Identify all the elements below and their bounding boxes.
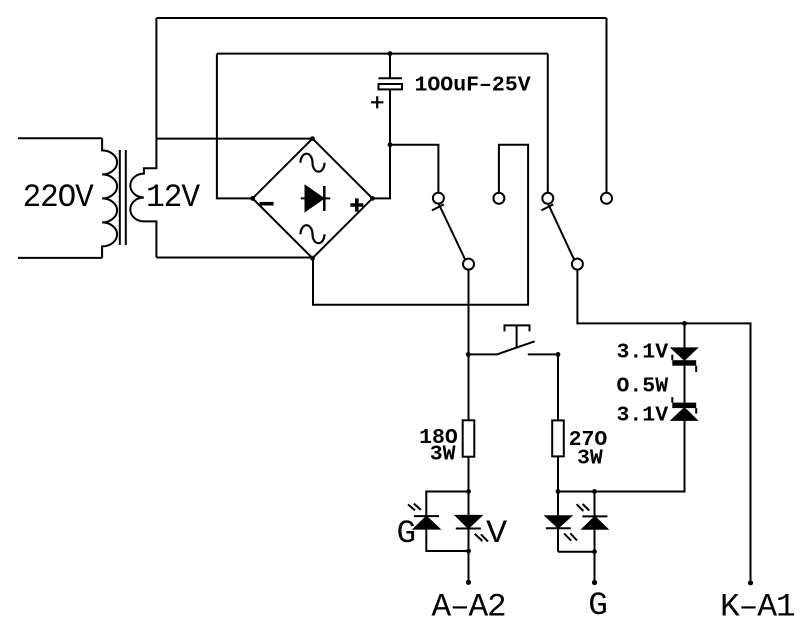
node left LED rail junction bbox=[466, 489, 471, 494]
svg-text:A–A2: A–A2 bbox=[432, 589, 506, 626]
node right LED rail right junction bbox=[592, 489, 597, 494]
resistor R2 box bbox=[552, 420, 564, 456]
LED D2 V cathode bar bbox=[456, 528, 481, 530]
wire between zeners bbox=[684, 366, 686, 403]
wire R1 bottom to LED rail bbox=[468, 457, 470, 492]
wire right LED right column bbox=[594, 492, 596, 552]
capacitor C1 plus sign bbox=[371, 96, 383, 108]
zener diode Z2 bar end ticks bbox=[672, 397, 696, 414]
node left LED bottom junction bbox=[466, 549, 471, 554]
wire right LED left column bbox=[557, 492, 559, 552]
switch S2 pole circle bbox=[542, 193, 553, 204]
wire junction to switch S1 pole bbox=[390, 145, 438, 193]
zener diode Z1 triangle bbox=[672, 348, 696, 359]
switch S2 common circle bbox=[572, 259, 583, 270]
wire primary top lead bbox=[18, 137, 102, 139]
transformer T1 core bbox=[120, 150, 126, 245]
wire button right node down to resistor R2 bbox=[557, 354, 559, 420]
wire zener column bottom to right LED rail bbox=[558, 420, 685, 492]
LED D4 cathode bar bbox=[582, 515, 607, 517]
wire S1 common down to push button node bbox=[468, 270, 470, 355]
wire outer rail to S2 right throw bbox=[606, 18, 608, 193]
wire S2 common to K-A1 column bbox=[577, 270, 750, 581]
LED D4 rays bbox=[577, 504, 590, 511]
zener diode Z1 bar end ticks bbox=[672, 355, 696, 372]
push button S3 actuator bbox=[505, 325, 530, 347]
bridge rectifier B1 diamond bbox=[253, 139, 373, 259]
resistor R1 box bbox=[463, 420, 475, 456]
node capacitor top junction bbox=[388, 51, 393, 56]
svg-text:3.1V: 3.1V bbox=[617, 404, 669, 428]
wire right LED bottom rail bbox=[558, 551, 595, 553]
wire left LED main column bbox=[468, 492, 470, 583]
node terminal K-A1 bbox=[748, 580, 753, 585]
node right LED bottom junction bbox=[592, 549, 597, 554]
svg-text:3W: 3W bbox=[430, 442, 456, 466]
LED D3 triangle bbox=[546, 516, 571, 527]
switch S1 lever tick bbox=[432, 204, 444, 210]
switch S1 pole circle bbox=[433, 193, 444, 204]
svg-text:O.5W: O.5W bbox=[617, 375, 669, 399]
node terminal G bbox=[592, 580, 597, 585]
wire zener column top bbox=[684, 323, 686, 348]
bridge B1 minus sign bbox=[260, 202, 274, 206]
switch S1 right throw circle bbox=[493, 193, 504, 204]
wire button node down to resistor R1 bbox=[468, 354, 470, 420]
bridge B1 AC squiggle bottom bbox=[301, 225, 325, 243]
bridge B1 AC squiggle top bbox=[301, 154, 325, 172]
node right LED rail left junction bbox=[556, 489, 561, 494]
node push button right bbox=[556, 352, 561, 357]
node push button left bbox=[466, 352, 471, 357]
svg-text:G: G bbox=[397, 515, 416, 552]
switch S1 common circle bbox=[463, 259, 474, 270]
wire inner top rail bbox=[217, 53, 548, 55]
transformer T1 secondary coil bbox=[130, 18, 156, 258]
wire left LED branch loop bbox=[426, 492, 468, 552]
capacitor C1 bottom plate box bbox=[379, 84, 403, 89]
svg-text:22OV: 22OV bbox=[23, 179, 95, 216]
node bridge right corner bbox=[370, 196, 375, 201]
wire bridge plus to capacitor column bbox=[372, 54, 390, 199]
LED D1 G triangle bbox=[414, 517, 439, 529]
node zener top junction bbox=[682, 321, 687, 326]
bridge B1 diode symbol bbox=[301, 197, 331, 199]
wire secondary bottom to bridge AC bottom bbox=[156, 257, 312, 259]
bridge B1 plus sign bbox=[350, 198, 363, 211]
wire inner rail left drop to bridge left corner bbox=[217, 54, 253, 199]
transformer T1 primary coil bbox=[102, 138, 117, 258]
node bridge bottom corner bbox=[310, 256, 315, 261]
switch S2 right throw circle bbox=[601, 193, 612, 204]
zener diode Z2 triangle bbox=[672, 408, 696, 420]
push button S3 lever bbox=[497, 341, 535, 354]
switch S1 lever bbox=[439, 204, 465, 260]
wire push button left contact bbox=[468, 353, 497, 355]
push button S3 right contact wire bbox=[528, 353, 558, 355]
LED D2 V rays bbox=[475, 534, 488, 542]
switch S2 lever bbox=[548, 204, 574, 260]
wire secondary top to bridge AC top bbox=[156, 138, 312, 140]
svg-text:3W: 3W bbox=[577, 446, 603, 470]
svg-text:1OOuF–25V: 1OOuF–25V bbox=[415, 74, 531, 98]
wire outer top rail bbox=[156, 17, 606, 19]
LED D3 cathode bar bbox=[546, 527, 571, 529]
LED D1 G cathode bar bbox=[414, 515, 439, 517]
LED D4 triangle bbox=[583, 517, 607, 529]
wire S1 right throw to bridge AC bottom bbox=[313, 145, 528, 305]
svg-text:12V: 12V bbox=[146, 179, 201, 216]
LED D2 V triangle bbox=[456, 516, 481, 528]
wire primary bottom lead bbox=[18, 257, 102, 259]
wire R2 bottom to right LED rail bbox=[557, 456, 559, 491]
switch S2 lever tick bbox=[541, 204, 553, 210]
wire inner rail to switch S2 pole bbox=[547, 54, 549, 193]
node terminal A-A2 bbox=[466, 580, 471, 585]
node bridge top corner bbox=[310, 136, 315, 141]
LED D3 rays bbox=[564, 533, 577, 540]
zener diode Z2 cathode bar bbox=[672, 403, 696, 409]
capacitor C1 top plate bbox=[379, 77, 403, 79]
node bridge left corner bbox=[250, 196, 255, 201]
svg-text:3.1V: 3.1V bbox=[617, 341, 669, 365]
svg-text:G: G bbox=[588, 587, 607, 624]
wire to terminal G bbox=[594, 552, 596, 583]
node capacitor mid junction bbox=[388, 142, 393, 147]
svg-text:V: V bbox=[486, 515, 508, 552]
LED D1 G rays bbox=[408, 504, 421, 511]
svg-text:K–A1: K–A1 bbox=[720, 589, 795, 626]
zener diode Z1 cathode bar bbox=[672, 360, 696, 366]
